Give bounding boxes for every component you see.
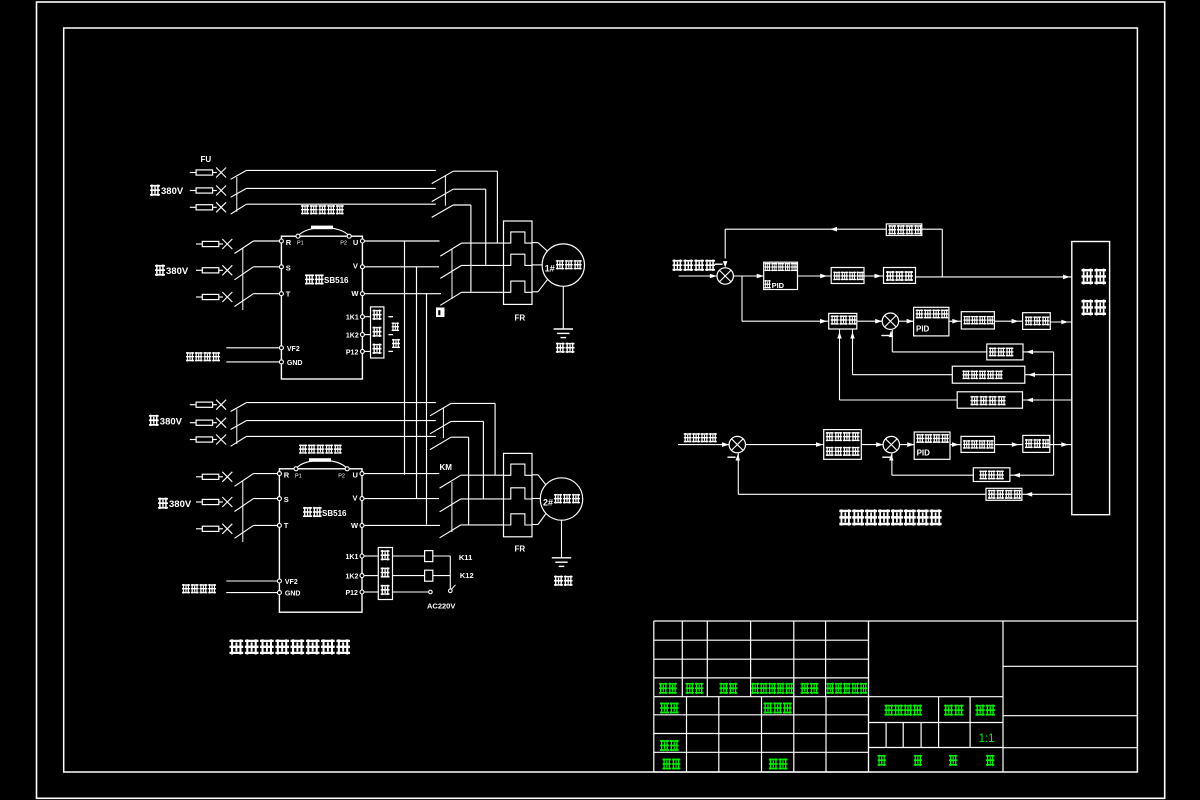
wire into inverter1 R [253,240,281,242]
switch contact X FU inverter2 phase2 [222,497,232,507]
label 标准化 [764,702,773,713]
wire FR1 to motor [532,242,538,244]
label 接380V (inverter 2 source) [158,498,168,510]
fuse FU inverter2 phase3 [196,528,202,530]
wire temp feedback horizontal [725,228,886,230]
wire GND (2) [226,592,277,594]
svg-text:FR: FR [515,545,526,554]
svg-text:PID: PID [916,325,930,334]
block 出水温度调节PID [764,262,798,289]
wire bypass phase3 to drop [453,204,471,206]
switch blade QS inverter2 phase2 [235,499,254,512]
wire setpoint input [679,275,717,277]
wire VF2 [226,347,279,349]
terminal U (1) [360,239,364,243]
svg-text:FU: FU [201,155,212,164]
label 比例 [976,705,985,716]
FR1 heater element 3 [504,281,532,292]
fuse FU inverter2 phase2 [196,501,202,503]
wire ratio ctl to sum4 [861,444,883,446]
switch blade KM2 bypass contact 1 [430,403,451,415]
contactor KM1 linkage [444,175,446,205]
terminal S (1) [279,265,283,269]
terminal V (2) [360,497,364,501]
svg-text:V: V [353,493,358,502]
FR1 heater element 2 [504,254,532,265]
block 炉排机 [884,268,916,284]
terminal GND (2) [277,591,281,595]
wire VFD1 to grate [864,275,884,277]
svg-text:FR: FR [515,314,526,323]
svg-text:R: R [286,238,292,247]
summing junction draft flow error [883,436,899,452]
terminal 1K2 (2) [360,574,364,578]
terminal V (1) [360,265,364,269]
svg-text:P1: P1 [295,473,302,479]
switch contact X FU inverter1 phase3 [222,292,232,302]
switch contact X FU2 phase3 [216,435,226,445]
wire VFD2 to blower [994,320,1022,322]
label 签名 [801,683,810,694]
wire furnace pressure from boiler [1022,493,1072,495]
title block right column rows [1003,665,1137,667]
wire crossover U to lower circuit [404,241,406,475]
svg-text:1K1: 1K1 [346,315,359,322]
wire K12 to AC source [433,575,451,577]
terminal GND (1) [279,360,283,364]
label 接地 (2) [554,576,563,587]
motor M2 2#循环泵 [540,478,582,520]
block 风量调节PID 2 [914,432,950,459]
svg-text:U: U [353,238,358,247]
svg-text:P2: P2 [338,473,345,479]
dash (same-as-below) [388,350,393,352]
wire inverter1 U output [364,240,439,242]
switch contact X FU inverter2 phase3 [222,524,232,534]
label 接地 (1) [556,343,565,354]
switch blade QS inverter1 phase3 [235,294,254,307]
terminal R (1) [279,239,283,243]
fuse FU1 phase2 [190,190,196,192]
wire inverter2 V output [364,498,439,500]
switch contact X FU inverter2 phase1 [222,472,232,482]
svg-text:AC220V: AC220V [427,602,455,611]
label 速度给定 (speed ref 2) [182,584,190,594]
label 设计 [660,702,669,713]
svg-text:T: T [284,521,289,530]
switch contact X FU1 phase2 [216,186,226,196]
svg-text:W: W [351,289,359,298]
label 分区 [720,683,729,694]
wire shared flow tap vertical [1053,352,1055,475]
terminal S (2) [277,497,281,501]
reactor arc 电源电抗器 (1) [298,228,349,237]
title block top edge right part [869,620,1138,622]
wire into inverter2 S [253,498,279,500]
label 批准 [769,758,778,769]
svg-text:GND: GND [287,360,303,367]
wire ratio to sum2 [857,320,882,322]
wire O2 to ratio block [853,374,953,376]
wire sum1 to PID1 [733,275,763,277]
wire vertical drop2 phase2 [482,421,484,498]
relay contact K12 [393,575,425,577]
minus sign (air) [881,335,889,337]
wire vertical drop phase1 [496,171,498,242]
svg-text:P12: P12 [346,590,359,597]
motor M1 1#循环泵 [542,244,584,286]
terminal 1K2 (1) [360,333,364,337]
expansion board 扩展板 U2 [378,548,392,600]
AC terminal right [449,589,453,593]
wire VFD3 to ID fan [995,444,1023,446]
terminal VF2 (1) [279,346,283,350]
title 燃烧系统调节原理 [839,509,851,526]
wire bypass2 phase3 [451,436,469,438]
svg-text:U: U [353,471,358,480]
wire blower-flow tap [1023,351,1054,353]
label 接380V (bypass source 2) [149,415,159,427]
svg-text:R: R [284,471,290,480]
block 变频调速 2 [961,312,994,329]
switch contact X FU inverter1 phase2 [222,265,232,275]
wire FR2 to motor [532,474,538,476]
wire 1K to expansion board 2 [364,591,378,593]
wire 1K to expansion board 2 [364,555,378,557]
dash (same-as-below) [388,316,393,318]
switch blade QS2 phase1 [231,403,247,412]
label 设定温度 [672,260,682,272]
wire GND [226,361,279,363]
minus sign (draft) [882,456,890,458]
inverter U1 森兰SB516 box [281,236,362,379]
svg-text:P2: P2 [340,241,347,247]
wire into inverter1 T [253,293,281,295]
switch contact X FU2 phase2 [216,418,226,428]
label 更改文件号 [751,683,759,694]
FR2 heater element 2 [504,488,532,499]
label 电源电抗器 (1) [301,205,309,215]
FR2 heater element 1 [504,464,532,475]
AC terminal left [429,590,433,594]
svg-text:P1: P1 [297,241,304,247]
wire to FR1 phase1 [462,242,504,244]
block 风煤比 [829,313,857,329]
svg-text:S: S [284,495,289,504]
block 烟气含氧量 [952,366,1025,383]
block 鼓风机 [1023,313,1051,330]
label 重量 [944,705,953,716]
wire P12 to AC terminal [393,591,429,593]
stage mark columns [938,697,940,748]
switch blade KM2 contact V [440,499,461,512]
wire VF2 (2) [226,580,277,582]
block 引风机 [1023,435,1050,452]
switch contact X FU2 phase1 [216,400,226,410]
switch blade QS1 phase3 [231,204,247,214]
wire bypass phase2 to drop [453,188,486,190]
svg-text:380V: 380V [169,499,192,510]
summing junction temperature error [717,268,733,284]
fuse FU inverter1 phase1 [196,243,202,245]
wire branch to ratio block [741,276,743,321]
switch blade QS inverter2 phase1 [235,474,254,487]
summing junction air flow error [882,313,898,329]
wire PID3 to VFD3 [950,444,961,446]
block 出水温度 [886,224,922,236]
wire PID1 to VFD1 [798,275,832,277]
fuse FU1 phase1 [190,172,196,174]
wire grate to boiler [916,276,1072,278]
FR2 heater element 3 [504,514,532,525]
terminal 1K1 (1) [360,315,364,319]
block 炉膛压力 [986,488,1022,500]
ground symbol 1 [562,286,564,329]
wire blower to boiler [1050,321,1072,323]
fuse FU2 phase3 [190,439,196,441]
terminal P12 (1) [360,349,364,353]
block 变频调速 3 [961,436,995,452]
reactor arc 电源电抗器 (2) [296,460,347,469]
wire bypass phase3 [246,435,435,437]
wire 1K to expansion board 2 [364,575,378,577]
svg-text:SB516: SB516 [322,509,347,518]
fuse FU1 phase3 [190,206,196,208]
svg-text:PID: PID [772,281,785,290]
switch blade KM1 bypass contact 2 [432,189,454,201]
label 审核 [660,740,669,751]
switch blade KM1 contact U [440,243,461,256]
svg-text:380V: 380V [160,417,183,428]
wire 1K to expansion board [364,334,370,336]
label 电源电抗器 (2) [299,444,307,454]
note 同下 [392,322,400,331]
label 压力设定 [684,433,692,443]
wire 1K to expansion board [364,350,370,352]
switch linkage bar QS2 [236,409,238,444]
wire PID2 to VFD2 [949,320,961,322]
label 阶段标记 [885,705,894,716]
contactor KM2 linkage 2 [451,482,453,532]
wire bypass phase2 [246,420,435,422]
wire furnace temp to ratio [840,399,958,401]
label 接380V (inverter 1 source) [155,265,165,277]
wire to FR1 phase2 [462,264,504,266]
wire vertical drop phase3 [470,205,472,292]
wire O2 from boiler [1025,374,1072,376]
svg-text:P12: P12 [346,349,359,356]
svg-text:W: W [351,521,359,530]
switch blade KM2 bypass contact 3 [430,437,451,449]
wire furnace-temp feedback riser [839,329,841,400]
switch contact X FU1 phase1 [216,168,226,178]
switch blade QS inverter2 phase3 [235,525,254,538]
contactor KM2 linkage [442,408,444,438]
wire crossover V to lower circuit [416,267,418,499]
label 标记 [659,683,668,694]
relay contact K11 [393,555,425,557]
terminal VF2 (2) [277,579,281,583]
label 森兰SB516 (1) [305,274,314,285]
switch blade KM2 contact U [440,475,461,488]
svg-text:VF2: VF2 [287,346,300,353]
wire O2 feedback riser [852,329,854,375]
terminal W (2) [360,523,364,527]
title block stage-mark rows [869,696,1004,698]
thermal relay FR2 box [504,453,533,536]
switch blade QS inverter1 phase1 [235,241,254,254]
switch blade QS inverter1 phase2 [235,267,254,280]
terminal 1K1 (2) [360,554,364,558]
svg-text:1K1: 1K1 [346,554,359,561]
label 共 张 第 张 [878,755,886,766]
switch blade KM1 contact V [440,265,461,278]
wire bypass phase1 to drop [453,170,497,172]
wire inverter1 W output [364,293,441,295]
fuse FU inverter1 phase2 [196,269,202,271]
svg-text:1K2: 1K2 [346,333,359,340]
switch blade KM1 contact W [440,292,461,305]
wire bypass phase1 [246,169,435,171]
title block signature table [654,714,869,716]
wire inverter2 W output [364,524,440,526]
wire into inverter2 R [253,473,279,475]
block 抽风量 [973,468,1010,482]
wire draft flow tap [1010,474,1054,476]
terminal U (2) [360,472,364,476]
wire inverter1 V output [364,266,439,268]
svg-text:2#: 2# [543,498,553,508]
fuse FU2 phase1 [190,404,196,406]
switch blade KM2 bypass contact 2 [430,421,451,433]
wire blower-flow to sum2 [892,351,987,353]
wire sum3 to ratio ctl [746,444,824,446]
label KM1 (highlighted) [436,308,445,318]
block 变频调速 1 [831,268,864,284]
terminal R (2) [277,472,281,476]
ground symbol 2 [561,520,563,558]
switch linkage bar inverter1 group [242,248,244,310]
expansion board 扩展板 U1 [371,307,384,358]
wire bypass phase1 [246,402,435,404]
wire 出水温度 tap [922,228,943,230]
svg-text:S: S [286,263,291,272]
svg-text:V: V [353,262,358,271]
switch blade QS2 phase3 [231,436,247,446]
inverter U2 森兰SB516 box [279,469,362,612]
wire 1K to expansion board [364,316,370,318]
fuse FU inverter1 phase3 [196,296,202,298]
title block centre/right verticals [868,621,870,772]
wire to FR2 phase1 [461,474,504,476]
thermal relay FR1 box [504,221,533,304]
svg-text:380V: 380V [166,266,189,277]
terminal T (1) [279,292,283,296]
wire bypass phase3 [246,203,435,205]
minus sign (temp) [715,263,723,265]
wire crossover W to lower circuit [426,294,428,525]
terminal T (2) [277,523,281,527]
svg-text:SB516: SB516 [324,276,349,285]
wire ID fan to boiler [1050,444,1072,446]
wire to FR2 phase2 [461,498,504,500]
wire vertical drop phase2 [485,189,487,265]
terminal P12 (2) [360,590,364,594]
svg-text:PID: PID [917,449,931,458]
title block revision table [654,620,869,622]
label 森兰SB516 (2) [303,507,312,518]
label 工艺 [663,758,672,769]
dash (same-as-below) [388,334,393,336]
wire vertical drop2 phase3 [468,437,470,524]
summing junction pressure error [729,436,745,452]
wire furnace temp from boiler [1023,399,1072,401]
switch linkage bar inverter2 group [242,481,244,542]
wire vertical drop2 phase1 [494,403,496,474]
wire bypass2 phase2 [451,420,483,422]
svg-text:GND: GND [285,591,301,598]
wire K11 to AC source [433,555,451,557]
label 速度给定 (speed ref 1) [186,352,194,362]
wire inverter2 U output [364,473,439,475]
wire sum2 to PID2 [899,320,914,322]
wire to FR2 phase3 [461,524,504,526]
switch blade QS1 phase1 [231,170,247,179]
wire temp feedback vertical [724,229,726,258]
svg-text:1#: 1# [545,264,555,274]
switch blade KM1 bypass contact 1 [432,171,454,183]
svg-text:VF2: VF2 [285,579,298,586]
label 处数 [686,683,695,694]
svg-text:KM: KM [440,463,453,472]
contactor KM1 linkage 2 [451,249,453,299]
block 风量调节PID 1 [914,307,949,336]
switch blade QS2 phase2 [231,421,247,430]
FR1 heater element 1 [504,232,532,243]
svg-text:1K2: 1K2 [346,574,359,581]
terminal W (1) [360,292,364,296]
switch linkage bar QS1 [236,177,238,212]
svg-text:K12: K12 [460,571,474,580]
wire bypass2 phase1 [451,402,495,404]
wire into inverter1 S [253,266,281,268]
wire sum4 to PID3 [900,444,915,446]
block 锅炉本体 (boiler) [1072,242,1110,515]
wire bypass phase2 [246,187,435,189]
AC source tick [452,585,456,589]
switch blade KM1 bypass contact 3 [432,205,454,217]
block 炉膛温度 [957,392,1022,408]
svg-text:380V: 380V [161,186,184,197]
svg-text:K11: K11 [459,553,472,562]
switch contact X FU inverter1 phase1 [222,239,232,249]
switch contact X FU1 phase3 [216,202,226,212]
wire pressure setpoint [678,444,729,446]
block 鼓风量 [987,344,1023,360]
switch blade QS1 phase2 [231,188,247,197]
label 接380V (bypass source 1) [150,185,160,197]
wire draft flow to sum4 [892,474,973,476]
wire furnace pressure to sum3 [738,493,986,495]
switch blade KM2 contact W [440,525,461,538]
svg-text:1:1: 1:1 [979,733,995,745]
wire into inverter2 T [253,524,279,526]
minus sign (pressure) [728,456,736,458]
fuse FU2 phase2 [190,422,196,424]
title 循环系统变频器接线 [230,639,244,654]
label 年、月、日 [827,683,835,694]
fuse FU inverter2 phase1 [196,476,202,478]
